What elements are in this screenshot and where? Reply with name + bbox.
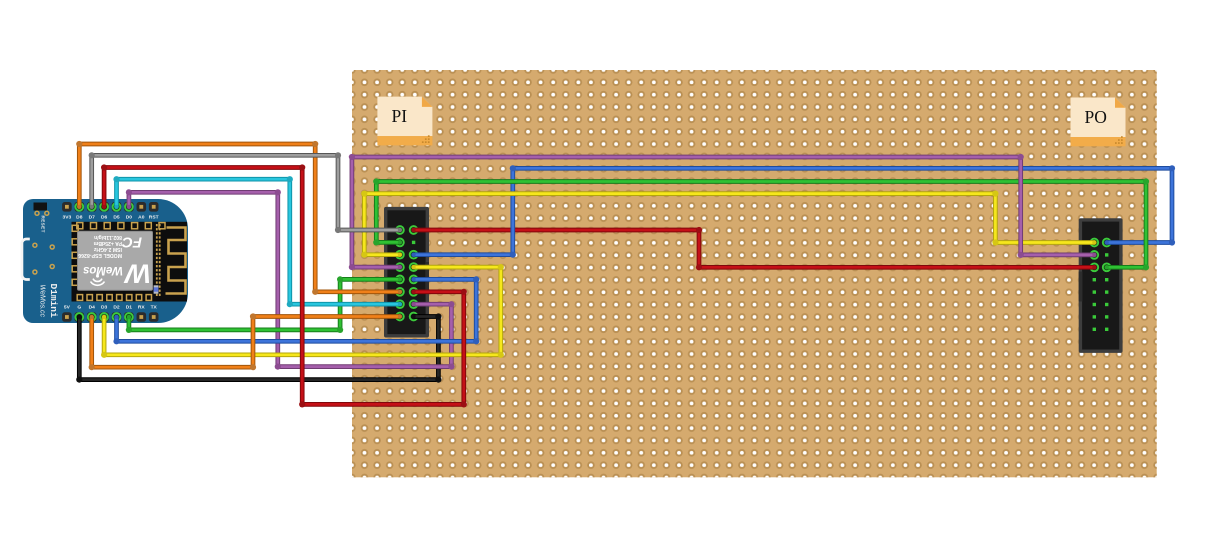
bottom pin header strip [62, 304, 158, 322]
ESP shield [78, 231, 153, 290]
svg-text:TX: TX [151, 304, 158, 310]
ESP-8266 module [72, 222, 188, 302]
svg-text:W: W [123, 259, 151, 289]
wire red D6 to PI-R6 [101, 164, 467, 407]
svg-text:D6: D6 [101, 215, 108, 221]
svg-text:WeMos.cc: WeMos.cc [39, 285, 46, 318]
svg-text:PO: PO [1085, 107, 1107, 127]
wire red PI-R1 to PO-L3 [412, 227, 1097, 271]
svg-text:D8: D8 [76, 215, 83, 221]
svg-text:D1mini: D1mini [48, 284, 59, 319]
svg-text:D2: D2 [113, 304, 120, 310]
wire gray D7 to PI-L1 [89, 152, 402, 233]
svg-text:RX: RX [138, 304, 146, 310]
svg-text:D7: D7 [89, 215, 96, 221]
WeMos D1 mini board [23, 199, 188, 323]
perfboard [352, 70, 1157, 477]
vias [33, 211, 54, 274]
svg-text:5V: 5V [64, 304, 71, 310]
svg-text:D0: D0 [126, 215, 133, 221]
svg-text:FC: FC [121, 234, 142, 251]
svg-text:RST: RST [149, 215, 159, 221]
wire yellow PI-L3 to PO-L1 [361, 191, 1096, 258]
note PI [377, 97, 432, 146]
svg-text:D5: D5 [113, 215, 120, 221]
connector header PI [384, 207, 429, 338]
wire blue D2 to PI-R5 [113, 276, 479, 344]
note PO [1071, 98, 1126, 147]
wire yellow D3 to PI-R4 [101, 264, 504, 358]
svg-text:D1: D1 [126, 304, 133, 310]
connector header PO [1079, 218, 1123, 353]
wire orange D8 to PI-L6 [76, 141, 402, 295]
wire black G to PI-R8 [76, 313, 441, 382]
micro-USB connector [22, 239, 30, 280]
wire blue PI-R3 to PO-R1 [412, 165, 1176, 258]
wire purple D0 to PI-R7 [126, 189, 455, 370]
svg-text:RESET: RESET [41, 216, 46, 233]
svg-text:G: G [77, 304, 81, 310]
wire green D1 to PI-L5 [126, 276, 402, 333]
reset button [34, 203, 48, 211]
svg-text:WeMos: WeMos [83, 264, 123, 276]
svg-text:PI: PI [392, 106, 408, 126]
wire purple PI-L4 to PO-L2 [349, 154, 1097, 270]
svg-text:3V3: 3V3 [63, 215, 72, 221]
top pin header strip [62, 202, 158, 221]
wire green PI-L2 to PO-R3 [373, 178, 1149, 270]
svg-text:D4: D4 [89, 304, 96, 310]
svg-text:A0: A0 [138, 215, 145, 221]
wire orange D4 to PI-L8 [89, 313, 402, 370]
wire cyan D5 to PI-L7 [113, 176, 402, 307]
svg-text:802.11b/g/n: 802.11b/g/n [94, 234, 122, 240]
svg-text:D3: D3 [101, 304, 108, 310]
